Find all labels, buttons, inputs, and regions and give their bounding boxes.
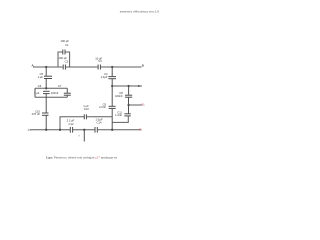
wire stub E xyxy=(83,130,85,142)
svg-text:1.2nF: 1.2nF xyxy=(115,113,122,117)
wire top rail right xyxy=(101,66,142,68)
svg-text:1.0µF: 1.0µF xyxy=(101,75,108,79)
wire right branch bottom xyxy=(112,116,128,122)
wire top rail middle xyxy=(66,66,98,68)
wire stub D xyxy=(129,104,143,106)
capacitor C6 xyxy=(34,84,50,95)
svg-text:C3: C3 xyxy=(98,59,102,63)
capacitor C10 xyxy=(32,109,49,116)
node D red xyxy=(141,102,145,106)
junction top-right xyxy=(111,66,113,68)
junction bottom left xyxy=(45,129,47,131)
svg-text:1 µs: Persimon, where-unit umb: 1 µs: Persimon, where-unit umbigne µ17 a… xyxy=(46,156,118,160)
wire mid shunt lower xyxy=(45,116,47,130)
capacitor C14 xyxy=(95,117,103,132)
wire bottom rail mid xyxy=(73,129,95,131)
wire loop1 top branch xyxy=(58,52,63,67)
wire left shunt lower xyxy=(45,79,47,89)
node A xyxy=(32,64,35,68)
svg-text:E1: E1 xyxy=(139,128,143,132)
svg-text:2.2 µF: 2.2 µF xyxy=(67,119,75,123)
capacitor C4 xyxy=(101,72,116,79)
capacitor C8 xyxy=(115,91,132,98)
node C xyxy=(138,84,141,88)
wire top rail left xyxy=(33,66,63,68)
wire loop1 top branch right xyxy=(65,52,69,67)
capacitor C9 xyxy=(99,102,115,109)
svg-text:C1: C1 xyxy=(65,43,69,47)
svg-text:470 nF: 470 nF xyxy=(32,112,41,116)
junction right branch top xyxy=(127,85,129,87)
wire loop2 right edge upper xyxy=(66,88,68,93)
svg-text:B: B xyxy=(142,63,144,67)
wire loop3 top branch left xyxy=(60,117,84,130)
wire right branch upper xyxy=(128,86,130,95)
junction loop2 xyxy=(45,87,47,89)
capacitor C12 xyxy=(67,119,75,133)
wire right branch mid xyxy=(128,98,130,114)
wire mid shunt upper xyxy=(45,97,47,113)
capacitor C5 xyxy=(38,72,52,79)
wire loop2 top rail xyxy=(35,87,67,89)
node B xyxy=(142,63,144,67)
svg-text:C14: C14 xyxy=(97,120,102,124)
wire mid vertical lower xyxy=(111,109,113,130)
wire bottom rail right xyxy=(98,129,141,131)
svg-text:e: e xyxy=(79,134,81,138)
wire loop2 right edge lower xyxy=(66,96,68,98)
svg-text:2.0nF: 2.0nF xyxy=(99,105,106,109)
svg-text:C6: C6 xyxy=(38,84,42,88)
capacitor C7 xyxy=(51,84,71,95)
svg-text:100nF: 100nF xyxy=(115,94,123,98)
wire c6 lower lead xyxy=(45,94,47,97)
capacitor C3 xyxy=(95,56,102,69)
capacitor C11 xyxy=(115,111,131,117)
svg-text:C12: C12 xyxy=(69,122,74,126)
svg-text:100nF: 100nF xyxy=(51,91,59,95)
capacitor C13 xyxy=(83,104,89,119)
node F red xyxy=(139,128,143,132)
node E label xyxy=(79,134,81,138)
wire bottom rail left xyxy=(30,129,70,131)
svg-text:100 µF: 100 µF xyxy=(60,39,69,43)
svg-text:1 µF: 1 µF xyxy=(34,91,40,95)
svg-text:C13: C13 xyxy=(84,107,89,111)
wire mid vertical upper xyxy=(111,67,113,76)
svg-text:C7: C7 xyxy=(58,84,62,88)
wire stub C xyxy=(112,85,142,87)
wire loop2 left edge xyxy=(34,88,36,97)
svg-text:C2: C2 xyxy=(65,59,69,63)
svg-text:1 µF: 1 µF xyxy=(38,75,44,79)
node bottom-left xyxy=(28,128,32,132)
wire loop3 top branch right xyxy=(87,116,113,118)
junction mid xyxy=(111,85,113,87)
svg-text:antenna efficiency.rev.1.0: antenna efficiency.rev.1.0 xyxy=(120,10,159,14)
wire mid vertical middle xyxy=(111,79,113,106)
svg-text:C5: C5 xyxy=(40,72,44,76)
junction bottom mid xyxy=(111,129,113,131)
junction stub E xyxy=(83,129,85,131)
junction loop3 left xyxy=(59,129,61,131)
wire loop2 bottom rail xyxy=(35,96,67,98)
capacitor C1 xyxy=(60,39,69,54)
svg-text:D1: D1 xyxy=(141,102,145,106)
junction top-left xyxy=(45,66,47,68)
junction right branch xyxy=(127,104,129,106)
capacitor C2 xyxy=(58,56,68,70)
wire left shunt upper xyxy=(45,67,47,76)
